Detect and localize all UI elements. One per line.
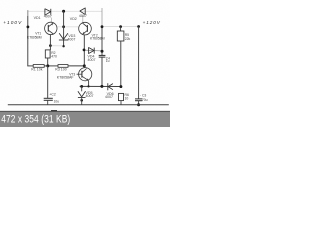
- diode VD6: [108, 83, 113, 90]
- wire VT2 emitter down: [83, 35, 85, 66]
- svg-text:KT8058AF: KT8058AF: [57, 76, 74, 80]
- label VD1 4007: [34, 15, 52, 20]
- label VD3 4007: [67, 34, 75, 42]
- node R6 top junction: [119, 85, 122, 88]
- node VD4 branch junction: [83, 49, 86, 52]
- node VD5 anode blob: [80, 99, 83, 102]
- wire VD5 branch down: [81, 86, 83, 91]
- resistor R1: [33, 65, 44, 68]
- wire C3 to ground rail: [138, 101, 140, 105]
- wire R3 to node B: [68, 65, 84, 67]
- wire VT1 emitter down: [49, 34, 51, 50]
- label VT1 KT605BM: [27, 32, 42, 40]
- label R6 10: [125, 93, 129, 101]
- transistor VT1: [45, 22, 57, 34]
- wire bias chain vertical: [63, 11, 65, 46]
- label R2 470: [51, 51, 57, 58]
- node output/102 junction: [100, 85, 103, 88]
- svg-text:KT605BM: KT605BM: [27, 35, 42, 39]
- wire ground rail: [8, 104, 169, 106]
- resistor R5: [117, 31, 124, 41]
- wire +V link 102 to 138.6 (faint): [102, 26, 139, 28]
- label C2: [49, 93, 59, 104]
- node +120V rail junction: [137, 25, 140, 28]
- label R3 100: [55, 67, 66, 71]
- wire R5 top stub: [120, 27, 122, 31]
- node A junction: [46, 64, 49, 67]
- svg-text:+C2: +C2: [49, 93, 55, 97]
- label VD4 4007: [88, 55, 96, 62]
- wire VD4 row: [84, 49, 102, 52]
- svg-text:R1 10k: R1 10k: [31, 68, 42, 72]
- wire VT2 collector stub (faint): [82, 16, 84, 23]
- svg-text:4007: 4007: [44, 15, 52, 19]
- svg-text:R3 100: R3 100: [55, 67, 66, 71]
- capacitor C3: [135, 98, 142, 100]
- svg-text:KT605BM: KT605BM: [90, 37, 105, 41]
- svg-text:70u: 70u: [142, 98, 148, 102]
- node VT3 emitter junction: [87, 85, 89, 87]
- node bias chain base junction: [62, 25, 65, 28]
- label R1 10k: [31, 68, 42, 72]
- svg-text:4007: 4007: [105, 95, 113, 99]
- thumbnail size bar: [0, 111, 170, 127]
- diode VD3: [59, 33, 68, 40]
- capacitor C4: [99, 54, 106, 56]
- wire output row: [80, 85, 121, 87]
- transistor VT2: [79, 22, 92, 35]
- transistor VT3: [77, 68, 92, 81]
- wire R2 to node A: [47, 58, 49, 66]
- wire C2 to ground rail: [47, 100, 49, 104]
- wire top bias bus (faint): [28, 10, 102, 12]
- wire right mid rail x=102: [101, 8, 103, 26]
- wire R1 row left rail corner to node A: [27, 65, 33, 67]
- diode VD2: [80, 8, 85, 15]
- diode VD4: [89, 47, 95, 54]
- svg-text:4007: 4007: [88, 58, 96, 62]
- node C3 ground junction: [137, 103, 140, 106]
- node +120V label: [143, 20, 161, 25]
- label VD2 4007: [70, 14, 87, 21]
- wire node link 50.7 to 63.6 (faint): [50, 45, 63, 47]
- svg-text:470: 470: [51, 55, 57, 59]
- resistor R6: [119, 93, 124, 100]
- wire VD5 to ground rail: [81, 98, 83, 105]
- svg-text:10: 10: [125, 97, 129, 101]
- wire R1 to node A: [44, 65, 58, 67]
- svg-text:1u: 1u: [106, 59, 110, 63]
- wire R6 to ground rail: [120, 101, 122, 105]
- wire C4 to output node: [101, 57, 103, 86]
- node +100V label: [3, 20, 22, 25]
- node bias tap junction: [62, 10, 65, 13]
- svg-text:4007: 4007: [86, 94, 94, 98]
- node VD5 branch junction: [80, 85, 83, 88]
- label VT3 KT805BM: [57, 72, 76, 79]
- node bias chain bottom junction: [62, 45, 64, 47]
- wire C2 branch down: [47, 66, 49, 98]
- node 102/51.2 junction: [101, 50, 104, 53]
- wire VT3 emitter down: [88, 81, 90, 87]
- node B junction (VT3 collector): [83, 64, 86, 67]
- label VD5 4007: [86, 91, 94, 98]
- svg-text:+120V: +120V: [143, 20, 161, 25]
- svg-text:R5: R5: [125, 33, 129, 37]
- svg-text:10u: 10u: [54, 99, 60, 103]
- node R5 top junction: [119, 25, 122, 28]
- diode VD1: [45, 9, 51, 16]
- wire left rail: [27, 10, 29, 66]
- svg-text:VD1: VD1: [34, 16, 41, 20]
- label C3 70u: [140, 93, 148, 102]
- resistor R3: [58, 65, 68, 68]
- wire VT1 emitter stub (faint): [50, 18, 52, 23]
- resistor R2: [45, 50, 50, 58]
- svg-text:VD2: VD2: [70, 17, 77, 21]
- svg-text:- C3: - C3: [140, 93, 147, 97]
- diode VD5: [78, 91, 86, 97]
- wire base link (faint): [57, 26, 79, 28]
- label C4: [106, 56, 110, 63]
- svg-text:+100V: +100V: [3, 20, 22, 25]
- capacitor C2: [44, 97, 53, 99]
- node VT1 collector junction: [49, 44, 52, 47]
- wire R5 down to output row: [120, 41, 122, 87]
- svg-text:4007: 4007: [67, 38, 75, 42]
- svg-text:22k: 22k: [125, 37, 131, 41]
- node +100V feed junction: [27, 26, 30, 29]
- label R5 22k: [125, 33, 131, 41]
- label VD6 4007: [105, 92, 114, 99]
- label VT2 KT605BM: [90, 33, 105, 40]
- svg-text:472 x 354 (31 KB): 472 x 354 (31 KB): [1, 113, 70, 125]
- wire +120V rail down: [138, 27, 140, 99]
- svg-text:VT1: VT1: [35, 32, 41, 36]
- node 102/26.7 junction: [101, 25, 104, 28]
- wire VT3 collector stub: [84, 66, 86, 68]
